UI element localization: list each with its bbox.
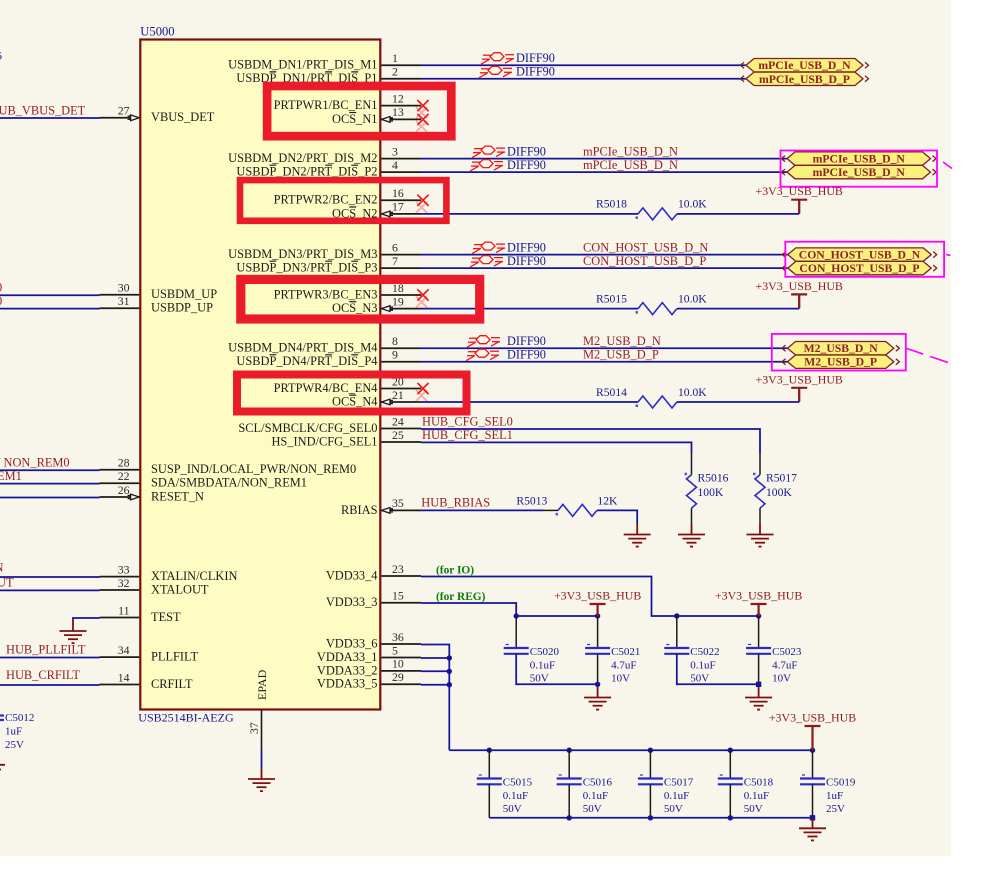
svg-text:6: 6 [0, 49, 2, 63]
svg-text:RBIAS: RBIAS [341, 503, 378, 517]
svg-text:PRTPWR2/BC_EN2: PRTPWR2/BC_EN2 [274, 193, 378, 207]
pin 37 line [261, 710, 263, 751]
svg-text:N: N [0, 560, 4, 574]
svg-text:100K: 100K [766, 486, 792, 499]
pin 5 VDDA33_1 (right side) line [381, 657, 421, 659]
junction dots rail1 [514, 613, 519, 618]
svg-text:+3V3_USB_HUB: +3V3_USB_HUB [756, 184, 843, 198]
pin 6 USBDM_DN3/PRT_DIS_M3 (right side) line [381, 254, 421, 256]
svg-text:6: 6 [392, 240, 398, 254]
diff pair symbol DIFF90 pin 7 [470, 256, 503, 268]
wire HUB_CRFILT [0, 684, 100, 686]
svg-text:30: 30 [118, 281, 130, 295]
svg-text:4.7uF: 4.7uF [611, 659, 636, 671]
svg-text:R5013: R5013 [516, 495, 547, 508]
no-ERC marker pin 13 [417, 114, 428, 125]
svg-text:PRTPWR4/BC_EN4: PRTPWR4/BC_EN4 [274, 381, 378, 395]
port M2_USB_D_P (row pin 9) [782, 355, 899, 369]
svg-text:50V: 50V [583, 803, 602, 815]
svg-text:27: 27 [118, 104, 130, 118]
pin 15 VDD33_3 (right side) line [381, 602, 421, 604]
svg-text:10.0K: 10.0K [678, 386, 707, 399]
svg-text:USBDM_UP: USBDM_UP [151, 287, 217, 301]
ground (R5016) [678, 524, 705, 547]
resistor R5013 [558, 504, 597, 516]
wire USBDM_UP [0, 294, 100, 296]
svg-text:CRFILT: CRFILT [151, 677, 193, 691]
svg-text:VDD33_3: VDD33_3 [326, 595, 378, 609]
ground (C5019) [799, 818, 826, 841]
C5015 bottom lead [488, 784, 490, 818]
capacitor C5020 [504, 645, 560, 685]
svg-text:0.1uF: 0.1uF [530, 659, 555, 671]
wire OCS net pin 17 left [421, 213, 638, 215]
junction dots rail2 [674, 613, 679, 618]
wire RESET_N [0, 497, 100, 499]
svg-text:+3V3_USB_HUB: +3V3_USB_HUB [769, 711, 856, 725]
port mPCIe_USB_D_N (row pin 1) [741, 59, 869, 73]
resistor R5017 body [755, 475, 765, 508]
svg-text:VDD33_6: VDD33_6 [326, 636, 378, 650]
capacitor C5022 [664, 645, 719, 685]
svg-text:HUB_CRFILT: HUB_CRFILT [6, 668, 80, 682]
svg-text:mPCIe_USB_D_N: mPCIe_USB_D_N [758, 59, 851, 72]
svg-text:33: 33 [118, 562, 130, 576]
svg-text:PRTPWR1/BC_EN1: PRTPWR1/BC_EN1 [274, 98, 378, 112]
selection box ports mPCIe (rows 3/4) [781, 151, 938, 187]
svg-text:13: 13 [392, 105, 404, 119]
svg-text:50V: 50V [690, 673, 709, 685]
svg-text:36: 36 [392, 630, 404, 644]
pin 23 VDD33_4 (right side) line [381, 575, 421, 577]
svg-text:USBDP_DN2/PRT_DIS_P2: USBDP_DN2/PRT_DIS_P2 [236, 165, 377, 179]
no-ERC marker pin 12 [417, 100, 428, 111]
C5017 top lead [649, 750, 651, 778]
svg-text:31: 31 [118, 294, 130, 308]
svg-text:14: 14 [118, 670, 130, 684]
svg-text:HUB_CFG_SEL0: HUB_CFG_SEL0 [422, 414, 513, 428]
svg-text:C5020: C5020 [530, 646, 560, 658]
svg-text:5: 5 [392, 643, 398, 657]
svg-text:DIFF90: DIFF90 [507, 158, 546, 172]
wire HUB_RBIAS left [421, 509, 544, 511]
selection box ports M2 (rows 8/9) [772, 334, 906, 371]
wire HUB_CFG_SEL0 [421, 429, 760, 454]
pin 20 PRTPWR4/BC_EN4 (right side) line [381, 388, 421, 390]
highlight rect PRTPWR2/OCS_N2 [240, 180, 446, 221]
svg-text:50V: 50V [744, 803, 763, 815]
wire VDD pins bus [421, 645, 449, 751]
C5020 top lead [515, 616, 517, 648]
svg-text:USBDP_DN4/PRT_DIS_P4: USBDP_DN4/PRT_DIS_P4 [236, 354, 377, 368]
pin 21 OCS_N4 (right side) line [381, 401, 421, 403]
svg-text:9: 9 [392, 348, 398, 362]
svg-text:mPCIe_USB_D_N: mPCIe_USB_D_N [583, 158, 678, 172]
C5016 bottom lead [568, 784, 570, 818]
wire OCS net pin 17 right [677, 213, 799, 215]
svg-text:25V: 25V [5, 739, 24, 751]
svg-text:OCS_N1: OCS_N1 [332, 112, 377, 126]
wire USB pair pin 6 [421, 254, 788, 256]
svg-text:PLLFILT: PLLFILT [151, 650, 198, 664]
pin 25 HS_IND/CFG_SEL1 (right side) line [381, 441, 421, 443]
svg-text:C5023: C5023 [772, 646, 802, 658]
diff pair symbol DIFF90 pin 9 [466, 349, 499, 361]
wire USBDP_UP [0, 308, 100, 310]
pin 7 USBDP_DN3/PRT_DIS_P3 (right side) line [381, 267, 421, 269]
ground (TEST) [60, 621, 87, 644]
wire OCS net pin 19 left [421, 308, 638, 310]
wire USB pair pin 9 [421, 361, 788, 363]
svg-text:+3V3_USB_HUB: +3V3_USB_HUB [756, 372, 843, 386]
svg-text:0.1uF: 0.1uF [690, 659, 715, 671]
pin 14 CRFILT (left side) line [100, 684, 140, 686]
ground (R5017) [747, 524, 774, 547]
svg-text:17: 17 [392, 200, 404, 214]
svg-text:0.1uF: 0.1uF [744, 790, 769, 802]
resistor R5017 bottom lead [759, 508, 761, 524]
ground fragment bottom-left [0, 765, 5, 770]
pin 24 SCL/SMBCLK/CFG_SEL0 (right side) line [381, 428, 421, 430]
svg-text:7: 7 [392, 254, 398, 268]
power +3V3_USB_HUB (R5014) [756, 372, 843, 401]
svg-text:+3V3_USB_HUB: +3V3_USB_HUB [756, 279, 843, 293]
C5023 bottom lead [758, 654, 760, 685]
pin 31 USBDP_UP (left side) line [100, 307, 140, 309]
diff pair symbol DIFF90 pin 1 [481, 53, 514, 65]
highlight rect PRTPWR1/OCS_N1 [267, 86, 451, 136]
svg-text:2: 2 [392, 65, 398, 79]
svg-text:10.0K: 10.0K [678, 198, 707, 211]
C5018 bottom lead [729, 784, 731, 818]
junction dots bottom rail top [487, 748, 492, 753]
svg-text:28: 28 [118, 456, 130, 470]
svg-text:mPCIe_USB_D_N: mPCIe_USB_D_N [813, 153, 906, 166]
svg-text:R5015: R5015 [596, 292, 627, 305]
svg-text:32: 32 [118, 576, 130, 590]
svg-text:mPCIe_USB_D_N: mPCIe_USB_D_N [583, 144, 678, 158]
selection tail (rows 3/4) [943, 162, 952, 169]
wire USB pair pin 1 [421, 64, 746, 66]
pin 29 VDDA33_5 (right side) line [381, 683, 421, 685]
pin 1 USBDM_DN1/PRT_DIS_M1 (right side) line [381, 64, 421, 66]
svg-text:CON_HOST_USB_D_P: CON_HOST_USB_D_P [799, 262, 919, 275]
no-ERC marker pin 20 [417, 383, 428, 394]
pin 27 VBUS_DET (left side) line [100, 117, 140, 119]
pin 33 XTALIN/CLKIN (left side) line [100, 576, 140, 578]
C5022 top lead [676, 616, 678, 648]
C5018 top lead [729, 750, 731, 778]
svg-text:0.1uF: 0.1uF [664, 790, 689, 802]
svg-text:24: 24 [392, 414, 404, 428]
junction dots VDD bus [447, 655, 452, 660]
pin 10 VDDA33_2 (right side) line [381, 670, 421, 672]
wire TEST to ground [73, 618, 100, 621]
svg-text:DIFF90: DIFF90 [507, 144, 546, 158]
svg-text:HUB_PLLFILT: HUB_PLLFILT [6, 643, 86, 657]
wire up to power (R5018) [798, 200, 800, 214]
svg-text:25: 25 [392, 428, 404, 442]
svg-text:USBDM_DN3/PRT_DIS_M3: USBDM_DN3/PRT_DIS_M3 [228, 247, 377, 261]
svg-text:USBDP_UP: USBDP_UP [151, 301, 213, 315]
svg-text:R5017: R5017 [766, 472, 797, 485]
pin 11 TEST (left side) line [100, 617, 140, 619]
selection box ports CON_HOST (rows 6/7) [785, 242, 944, 277]
svg-text:22: 22 [118, 469, 130, 483]
svg-text:21: 21 [392, 388, 404, 402]
pin 26 RESET_N (left side) line [100, 496, 140, 498]
svg-text:UB_VBUS_DET: UB_VBUS_DET [0, 104, 86, 118]
svg-text:11: 11 [118, 603, 129, 617]
pin 4 USBDP_DN2/PRT_DIS_P2 (right side) line [381, 171, 421, 173]
svg-text:34: 34 [118, 643, 130, 657]
pin 36 VDD33_6 (right side) line [381, 643, 421, 645]
svg-text:C5017: C5017 [664, 776, 694, 788]
svg-text:U5000: U5000 [140, 25, 174, 39]
capacitor C5023 [746, 645, 802, 685]
wire bottom bank top rail [449, 749, 812, 751]
resistor R5017 top lead [759, 454, 761, 475]
port M2_USB_D_N (row pin 8) [782, 342, 899, 356]
capacitor C5012 (cut) [0, 712, 34, 751]
svg-text:12K: 12K [597, 495, 618, 508]
svg-text:R5018: R5018 [596, 198, 627, 211]
pin 17 OCS_N2 (right side) line [381, 213, 421, 215]
svg-text:CON_HOST_USB_D_P: CON_HOST_USB_D_P [583, 254, 706, 268]
svg-text:1: 1 [392, 51, 398, 65]
svg-text:M2_USB_D_N: M2_USB_D_N [804, 342, 879, 355]
svg-text:EPAD: EPAD [255, 669, 269, 700]
svg-text:DIFF90: DIFF90 [507, 254, 546, 268]
svg-text:OCS_N4: OCS_N4 [332, 394, 377, 408]
svg-text:0.1uF: 0.1uF [503, 790, 528, 802]
svg-text:C5012: C5012 [5, 712, 34, 724]
svg-text:mPCIe_USB_D_N: mPCIe_USB_D_N [813, 166, 906, 179]
svg-text:10V: 10V [772, 673, 791, 685]
pin 22 SDA/SMBDATA/NON_REM1 (left side) line [100, 482, 140, 484]
svg-text:+3V3_USB_HUB: +3V3_USB_HUB [715, 589, 802, 603]
svg-text:M2_USB_D_P: M2_USB_D_P [804, 356, 877, 369]
pin 16 PRTPWR2/BC_EN2 (right side) line [381, 199, 421, 201]
no-ERC marker pin 16 [417, 195, 428, 206]
power +3V3_USB_HUB (group1) [554, 589, 641, 617]
svg-text:USBDM_DN2/PRT_DIS_M2: USBDM_DN2/PRT_DIS_M2 [228, 151, 377, 165]
ground (EPAD) [248, 769, 275, 792]
pin 12 PRTPWR1/BC_EN1 (right side) line [381, 105, 421, 107]
resistor R5014 [638, 396, 677, 408]
svg-text:C5016: C5016 [583, 776, 613, 788]
C5020 bottom lead+rail [516, 654, 597, 685]
svg-text:50V: 50V [664, 803, 683, 815]
wire OCS net pin 21 left [421, 401, 638, 403]
svg-text:1uF: 1uF [5, 726, 22, 738]
C5023 top lead [758, 616, 760, 648]
svg-text:DIFF90: DIFF90 [507, 334, 546, 348]
svg-text:35: 35 [392, 496, 404, 510]
R5013 left lead [544, 509, 559, 511]
C5015 top lead [488, 750, 490, 778]
port mPCIe_USB_D_N (row pin 3) [782, 152, 937, 166]
capacitor C5021 [585, 645, 640, 685]
svg-text:HS_IND/CFG_SEL1: HS_IND/CFG_SEL1 [271, 434, 377, 448]
svg-text:SDA/SMBDATA/NON_REM1: SDA/SMBDATA/NON_REM1 [151, 476, 307, 490]
diff pair symbol DIFF90 pin 8 [467, 336, 500, 348]
ground (C5023) [745, 687, 772, 710]
svg-text:3: 3 [392, 144, 398, 158]
port mPCIe_USB_D_P (row pin 2) [741, 72, 869, 86]
wire USB pair pin 4 [421, 171, 787, 173]
C5019 bottom lead [812, 784, 814, 818]
svg-text:UT: UT [0, 576, 14, 590]
no-ERC marker pin 18 [417, 289, 428, 300]
svg-text:8: 8 [392, 334, 398, 348]
svg-text:USBDM_DN4/PRT_DIS_M4: USBDM_DN4/PRT_DIS_M4 [228, 341, 377, 355]
wire bottom bank bottom rail [489, 817, 812, 819]
svg-text:DIFF90: DIFF90 [507, 348, 546, 362]
svg-text:VDD33_4: VDD33_4 [326, 568, 378, 582]
port CON_HOST_USB_D_N (row pin 6) [782, 248, 936, 262]
C5016 top lead [568, 750, 570, 778]
wire USB pair pin 2 [421, 78, 746, 80]
pin 8 USBDM_DN4/PRT_DIS_M4 (right side) line [381, 347, 421, 349]
svg-text:VDDA33_1: VDDA33_1 [317, 650, 378, 664]
IC U5000 USB2514BI-AEZG body [140, 40, 380, 710]
resistor R5016 body [687, 475, 697, 508]
wire NON_REM0 [0, 469, 100, 471]
svg-text:R5014: R5014 [596, 386, 627, 399]
svg-text:DIFF90: DIFF90 [516, 51, 555, 65]
svg-text:10.0K: 10.0K [678, 292, 707, 305]
wire pin37 to ground [261, 750, 263, 769]
power +3V3_USB_HUB (bottom bank) [769, 711, 856, 751]
svg-text:XTALIN/CLKIN: XTALIN/CLKIN [151, 569, 237, 583]
capacitor C5017 [638, 775, 694, 815]
svg-text:15: 15 [392, 589, 404, 603]
pin 30 USBDM_UP (left side) line [100, 294, 140, 296]
svg-text:37: 37 [247, 722, 261, 734]
svg-text:VBUS_DET: VBUS_DET [151, 110, 215, 124]
pin 34 PLLFILT (left side) line [100, 656, 140, 658]
pin 32 XTALOUT (left side) line [100, 589, 140, 591]
svg-text:PRTPWR3/BC_EN3: PRTPWR3/BC_EN3 [274, 287, 378, 301]
svg-text:29: 29 [392, 670, 404, 684]
wire OCS net pin 21 right [677, 401, 799, 403]
svg-text:M2_USB_D_N: M2_USB_D_N [583, 334, 661, 348]
port CON_HOST_USB_D_P (row pin 7) [782, 261, 936, 275]
svg-text:VDDA33_2: VDDA33_2 [317, 663, 378, 677]
wire NON_REM1 [0, 483, 100, 485]
wire HUB_PLLFILT [0, 657, 100, 659]
svg-text:EM1: EM1 [0, 469, 22, 483]
resistor R5016 bottom lead [691, 508, 693, 524]
svg-text:C5021: C5021 [611, 646, 640, 658]
svg-text:100K: 100K [698, 486, 724, 499]
C5017 bottom lead [649, 784, 651, 818]
capacitor C5018 [718, 775, 774, 815]
wire USB pair pin 7 [421, 267, 788, 269]
svg-text:HUB_CFG_SEL1: HUB_CFG_SEL1 [422, 428, 513, 442]
wire up to power (R5015) [798, 295, 800, 309]
svg-text:25V: 25V [826, 803, 845, 815]
wire HUB_CFG_SEL1 [421, 442, 692, 453]
svg-text:23: 23 [392, 562, 404, 576]
svg-text:VDDA33_5: VDDA33_5 [317, 677, 378, 691]
svg-text:SUSP_IND/LOCAL_PWR/NON_REM0: SUSP_IND/LOCAL_PWR/NON_REM0 [151, 462, 356, 476]
svg-text:R5016: R5016 [698, 472, 729, 485]
wire USB pair pin 3 [421, 158, 787, 160]
capacitor C5019 [800, 775, 856, 815]
svg-text:USBDM_DN1/PRT_DIS_M1: USBDM_DN1/PRT_DIS_M1 [228, 58, 377, 72]
capacitor C5016 [557, 775, 613, 815]
svg-text:CON_HOST_USB_D_N: CON_HOST_USB_D_N [583, 240, 708, 254]
svg-text:DIFF90: DIFF90 [516, 65, 555, 79]
highlight rect PRTPWR3/OCS_N3 [241, 279, 480, 319]
svg-text:C5018: C5018 [744, 776, 774, 788]
svg-text:10V: 10V [611, 673, 630, 685]
svg-text:4: 4 [392, 158, 398, 172]
svg-text:0.1uF: 0.1uF [583, 790, 608, 802]
svg-text:XTALOUT: XTALOUT [151, 582, 209, 596]
junction dot group1 gnd [595, 682, 600, 687]
C5022 bottom lead+rail [677, 654, 759, 685]
junction dot group2 gnd [756, 682, 761, 687]
power +3V3_USB_HUB (R5015) [756, 279, 843, 308]
svg-text:19: 19 [392, 294, 404, 308]
pin 3 USBDM_DN2/PRT_DIS_M2 (right side) line [381, 158, 421, 160]
diff pair symbol DIFF90 pin 3 [472, 146, 505, 158]
wire HUB_VBUS_DET [0, 117, 100, 119]
pin 2 USBDP_DN1/PRT_DIS_P1 (right side) line [381, 78, 421, 80]
svg-text:10: 10 [392, 657, 404, 671]
junction dots bottom rail [567, 815, 572, 820]
svg-text:1uF: 1uF [826, 790, 843, 802]
selection tail (rows 6/7) [946, 254, 950, 257]
diff pair symbol DIFF90 pin 2 [479, 66, 512, 78]
capacitor C5015 [477, 775, 533, 815]
svg-text:USB2514BI-AEZG: USB2514BI-AEZG [138, 711, 234, 725]
svg-text:OCS_N3: OCS_N3 [332, 301, 377, 315]
ground (RBIAS) [624, 524, 651, 547]
svg-text:26: 26 [118, 483, 130, 497]
pin 35 RBIAS (right side) line [381, 509, 421, 511]
wire VDD33_4 (for IO) [421, 577, 759, 617]
svg-text:0: 0 [0, 294, 2, 308]
svg-text:16: 16 [392, 186, 404, 200]
svg-text:USBDP_DN3/PRT_DIS_P3: USBDP_DN3/PRT_DIS_P3 [236, 261, 377, 275]
svg-text:50V: 50V [530, 673, 549, 685]
wire XTALIN [0, 576, 100, 578]
pin 13 OCS_N1 (right side) line [381, 118, 421, 120]
pin 18 PRTPWR3/BC_EN3 (right side) line [381, 294, 421, 296]
svg-text:4.7uF: 4.7uF [772, 659, 797, 671]
pin 19 OCS_N3 (right side) line [381, 308, 421, 310]
svg-text:(for REG): (for REG) [436, 591, 486, 603]
wire VDD33_3 (for REG) [421, 603, 598, 616]
pin 9 USBDP_DN4/PRT_DIS_P4 (right side) line [381, 361, 421, 363]
svg-text:mPCIe_USB_D_P: mPCIe_USB_D_P [759, 73, 850, 86]
wire XTALOUT [0, 589, 100, 591]
svg-text:+3V3_USB_HUB: +3V3_USB_HUB [554, 589, 641, 603]
svg-text:RESET_N: RESET_N [151, 489, 204, 503]
svg-text:/ NON_REM0: / NON_REM0 [0, 455, 70, 469]
svg-text:SCL/SMBCLK/CFG_SEL0: SCL/SMBCLK/CFG_SEL0 [238, 421, 377, 435]
port mPCIe_USB_D_N (row pin 4) [782, 165, 937, 179]
C5019 top lead [812, 750, 814, 778]
highlight rect PRTPWR4/OCS_N4 [237, 375, 467, 412]
diff pair symbol DIFF90 pin 6 [472, 242, 505, 254]
svg-text:TEST: TEST [151, 610, 181, 624]
C5021 top lead [597, 616, 599, 648]
